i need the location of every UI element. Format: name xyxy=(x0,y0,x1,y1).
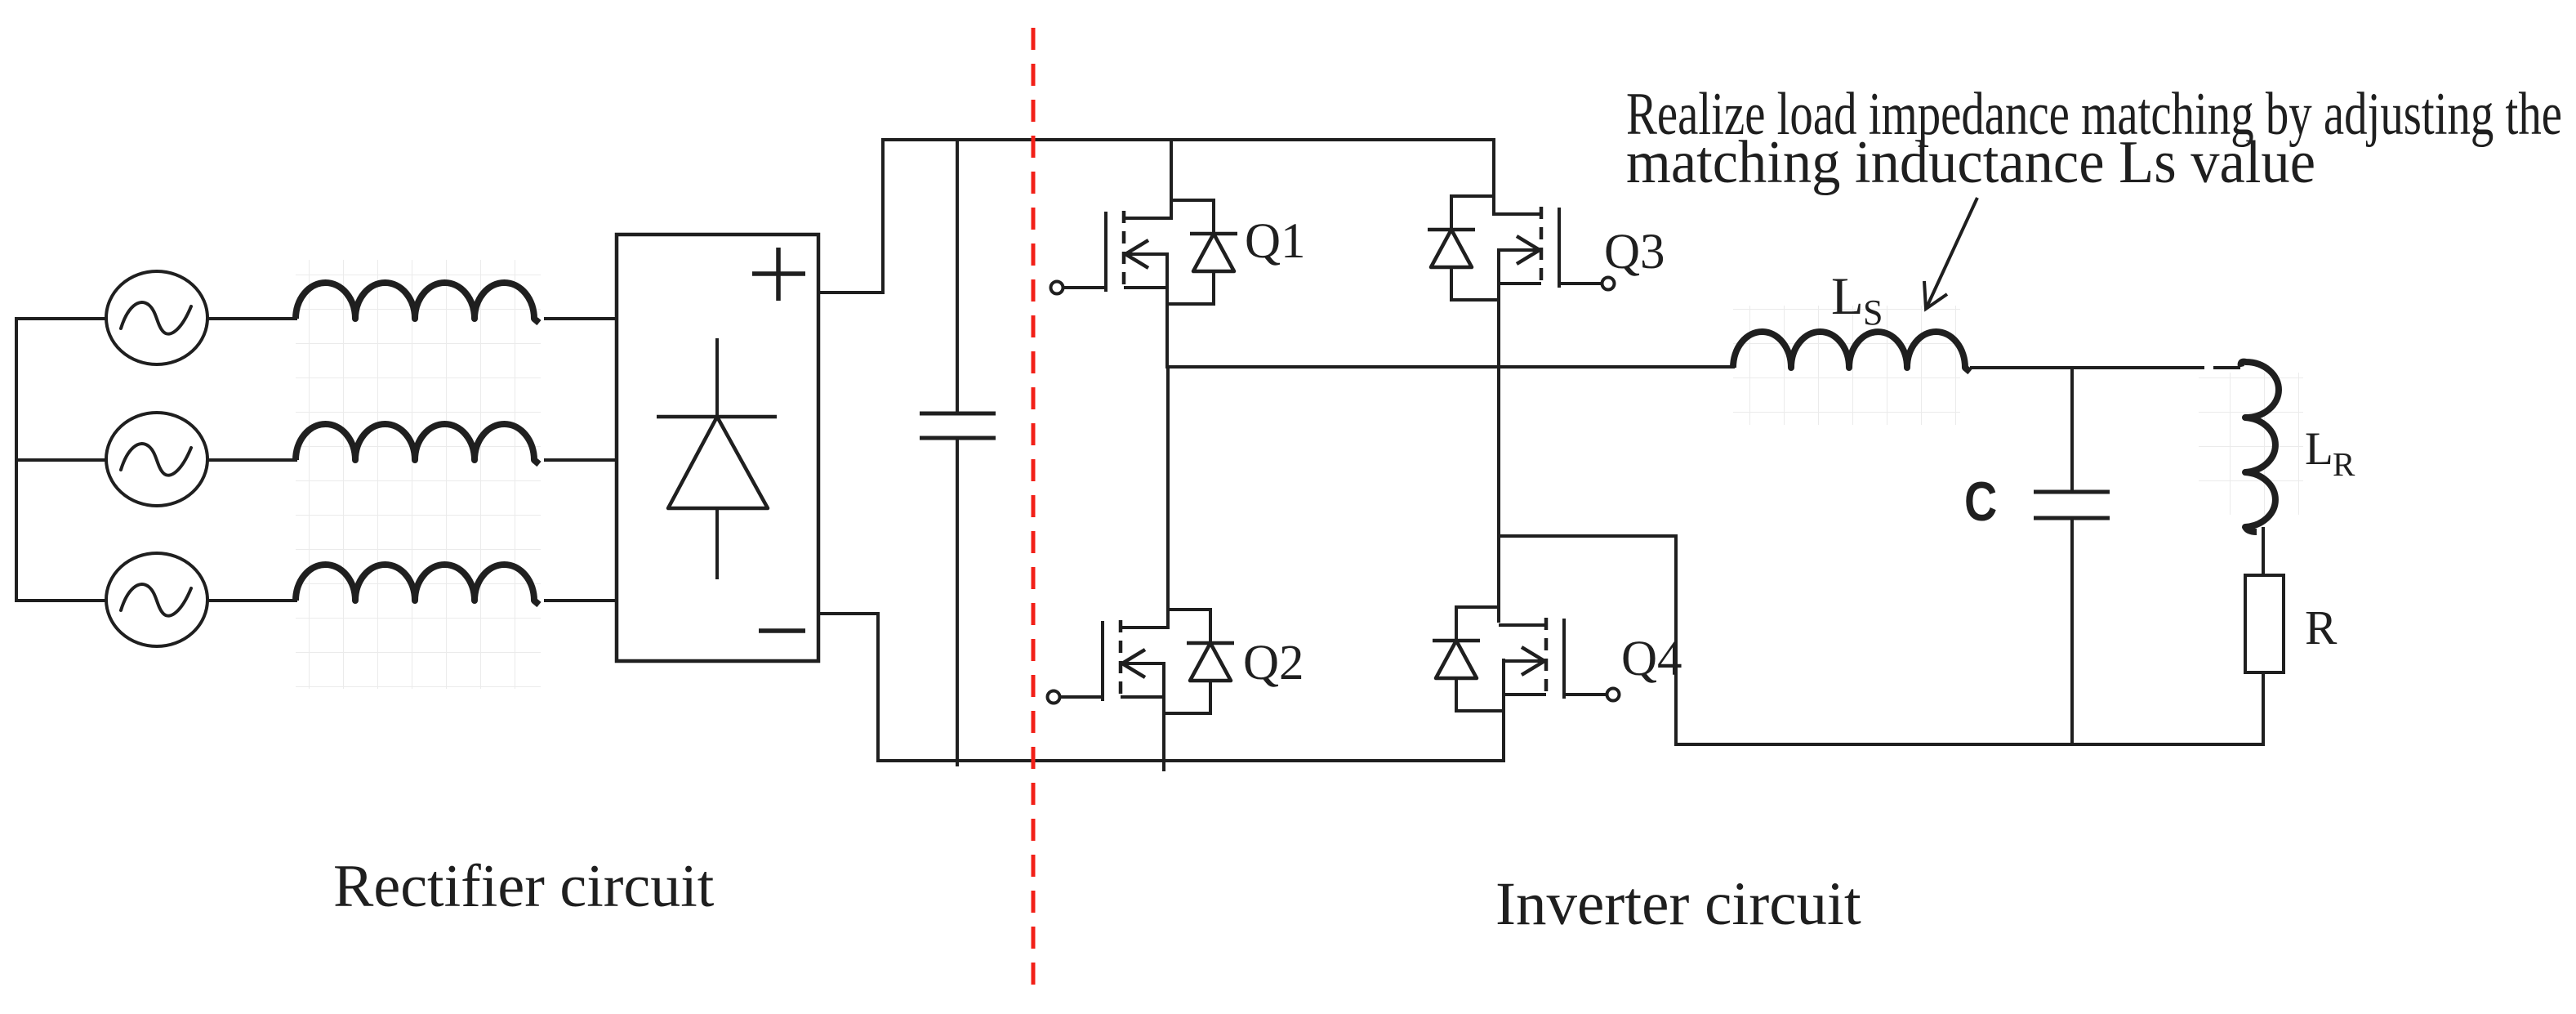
wire: LR to R xyxy=(2262,527,2265,577)
wire: Ls to load section xyxy=(1970,366,2204,369)
transistor Q2 drain lead xyxy=(1121,626,1168,629)
svg-text:R: R xyxy=(2305,601,2338,654)
wire: R to load return xyxy=(2262,672,2265,746)
wire: node B jog right xyxy=(1499,534,1676,538)
wire: Q2 source down to bottom rail xyxy=(1162,662,1165,771)
body diode of Q2 xyxy=(1187,608,1234,715)
transistor Q4 gate bar xyxy=(1562,619,1566,699)
transistor Q4 drain lead xyxy=(1499,623,1546,627)
wire: phase A from bus to source xyxy=(15,317,107,320)
svg-text:Q2: Q2 xyxy=(1243,636,1304,690)
transistor Q3 gate bar xyxy=(1558,208,1561,288)
wire: Q2 drain up to output node A xyxy=(1166,367,1170,629)
transistor Q4 gate terminal circle xyxy=(1607,689,1620,701)
body diode of Q1 xyxy=(1190,199,1237,306)
wire: left bus joining three phases xyxy=(15,319,18,601)
transistor Q2 gate bar xyxy=(1101,621,1104,701)
wire: Q1 source down to output node A xyxy=(1165,252,1169,369)
svg-text:C: C xyxy=(1964,471,1997,533)
transistor Q3 channel (dashed) xyxy=(1540,207,1544,288)
svg-text:Q1: Q1 xyxy=(1245,214,1306,269)
wire: source V2 to inductor LB xyxy=(207,458,297,462)
transistor Q4 channel (dashed) xyxy=(1544,618,1549,699)
transistor Q2 body arrow lead xyxy=(1122,662,1164,665)
wire: short dash before LR xyxy=(2213,366,2240,369)
svg-text:L: L xyxy=(1831,267,1864,326)
minus terminal label of rectifier xyxy=(759,628,805,633)
wire: Q4 drain-diode top jog xyxy=(1456,605,1499,609)
svg-text:Rectifier circuit: Rectifier circuit xyxy=(333,853,715,920)
wire: phase C from bus to source xyxy=(15,599,107,602)
transistor Q3 body arrow lead xyxy=(1498,248,1540,252)
svg-text:S: S xyxy=(1863,293,1883,333)
transistor Q3 gate lead xyxy=(1559,282,1602,285)
wire: source V1 to inductor LA xyxy=(207,317,297,320)
transistor Q3 gate terminal circle xyxy=(1602,278,1615,290)
transistor Q2 source lead xyxy=(1121,695,1164,699)
capacitor: DC-link filter capacitor xyxy=(920,138,996,766)
inductor LC (line filter choke, phase C) xyxy=(296,565,539,605)
wire: Q4 source-diode bottom jog xyxy=(1456,709,1503,712)
capacitor C (compensation capacitor) xyxy=(2034,366,2110,746)
transistor Q2 gate terminal circle xyxy=(1048,691,1060,704)
wire: Q3 drain to top rail xyxy=(1492,138,1495,216)
transistor Q3 source lead xyxy=(1498,282,1541,285)
wire: top DC rail xyxy=(881,138,1494,141)
svg-text:Inverter circuit: Inverter circuit xyxy=(1495,870,1861,938)
svg-text:L: L xyxy=(2305,423,2333,475)
wire: rectifier - output to bottom DC rail xyxy=(818,614,878,762)
diode symbol inside rectifier xyxy=(657,338,777,579)
wire: Q3 source-diode bottom jog xyxy=(1451,298,1498,302)
label C xyxy=(1964,471,1997,533)
svg-text:matching inductance Ls value: matching inductance Ls value xyxy=(1626,129,2315,196)
wire: Q1 drain-diode top jog xyxy=(1171,199,1214,202)
wire: phase B from bus to source xyxy=(15,458,107,462)
inductor LR (load coil) xyxy=(2241,362,2279,532)
resistor R (load) xyxy=(2245,575,2284,672)
AC source V3 (phase C) xyxy=(106,553,207,646)
wire: Q1 drain to top rail xyxy=(1170,138,1173,220)
plus terminal label of rectifier xyxy=(752,248,805,301)
rectifier bridge block (box) xyxy=(617,235,818,661)
transistor Q1 gate lead xyxy=(1063,286,1106,289)
annotation arrow pointing to Ls xyxy=(1924,198,1977,309)
inductor Ls (matching inductance) xyxy=(1733,332,1970,372)
svg-text:Q3: Q3 xyxy=(1604,225,1665,279)
transistor Q1 gate terminal circle xyxy=(1051,282,1063,294)
wire: right leg vertical (Q3 source / Q4 drain / output node B) xyxy=(1497,248,1500,623)
inductor LB (line filter choke, phase B) xyxy=(296,424,539,464)
wire: rectifier + output to top DC rail xyxy=(818,138,883,293)
wire: bottom DC rail xyxy=(878,759,1504,762)
transistor Q4 gate lead xyxy=(1564,693,1607,696)
body diode of Q4 xyxy=(1433,605,1480,712)
body diode of Q3 xyxy=(1428,194,1475,302)
svg-text:Q4: Q4 xyxy=(1621,632,1682,686)
wire: inductor LA to rectifier input xyxy=(544,317,618,320)
separator: red dashed boundary between rectifier and inverter circuits xyxy=(1032,28,1036,985)
wire: load return rail xyxy=(1674,743,2263,746)
transistor Q2 gate lead xyxy=(1059,695,1103,699)
wire: Q1 source-diode bottom jog xyxy=(1167,302,1214,306)
transistor Q4 source lead xyxy=(1503,693,1546,696)
transistor Q1 gate bar xyxy=(1104,212,1108,292)
wire: inductor LC to rectifier input xyxy=(544,599,618,602)
wire: node B down to load return xyxy=(1674,534,1678,746)
transistor Q1 drain lead xyxy=(1124,217,1171,220)
inductor LA (line filter choke, phase A) xyxy=(296,283,539,323)
wire: Q3 drain-diode top jog xyxy=(1451,194,1494,198)
wire: Q2 drain-diode top jog xyxy=(1168,608,1210,611)
transistor Q2 channel (dashed) xyxy=(1119,620,1123,702)
AC source V1 (phase A) xyxy=(106,271,207,364)
wire: node A rail from Q1/Q2 junction to Ls xyxy=(1167,365,1735,369)
wire: source V3 to inductor LC xyxy=(207,599,297,602)
transistor Q1 source lead xyxy=(1124,286,1167,289)
transistor Q1 channel (dashed) xyxy=(1122,211,1126,293)
svg-text:R: R xyxy=(2333,445,2355,483)
transistor Q1 body arrow lead xyxy=(1125,252,1167,256)
transistor Q3 drain lead xyxy=(1494,212,1541,216)
wire: inductor LB to rectifier input xyxy=(544,458,618,462)
wire: Q2 source-diode bottom jog xyxy=(1164,712,1210,715)
wire: Q4 source down to bottom rail xyxy=(1502,659,1505,762)
AC source V2 (phase B) xyxy=(106,413,207,506)
transistor Q4 body arrow lead xyxy=(1503,659,1544,663)
